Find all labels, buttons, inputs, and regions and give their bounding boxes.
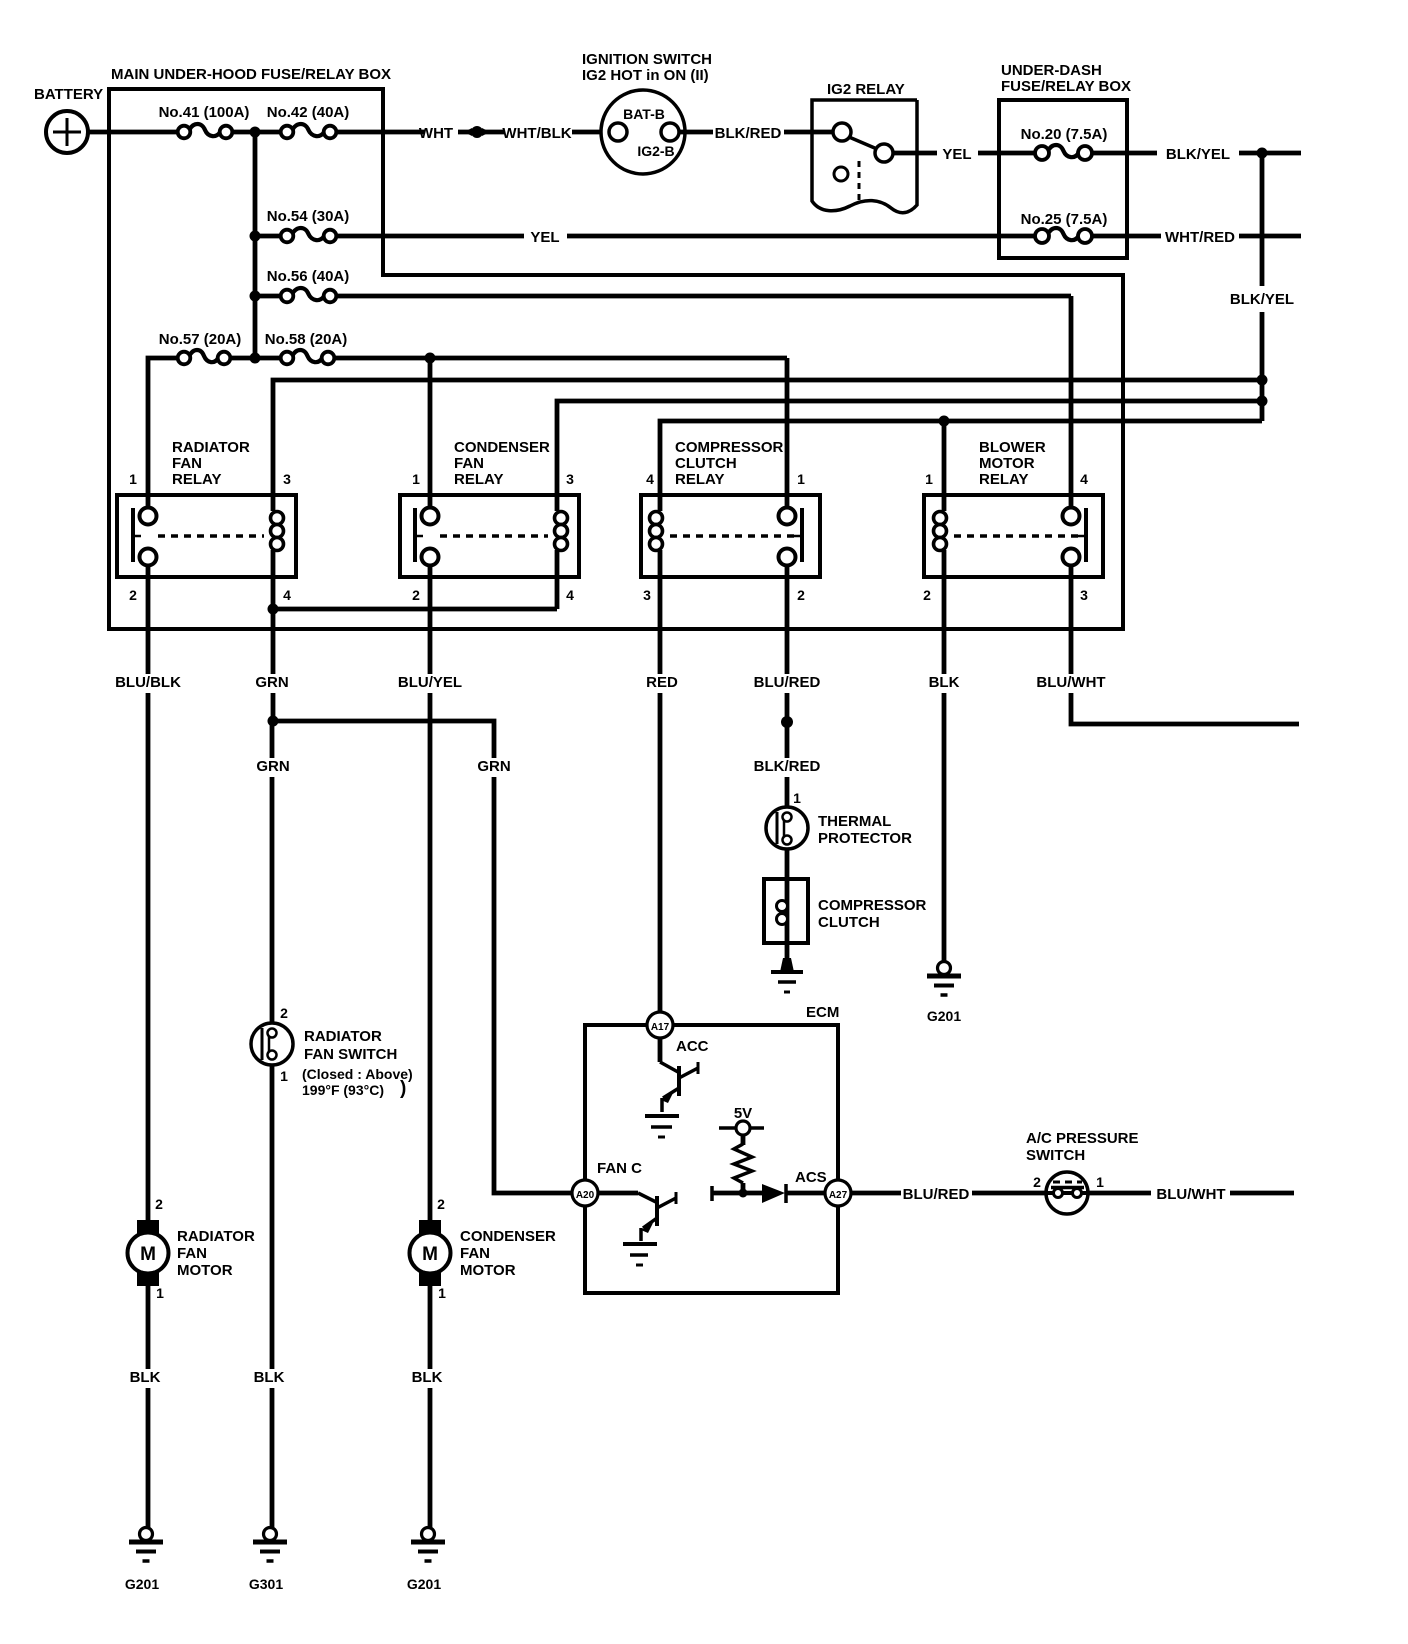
svg-text:FAN: FAN — [172, 455, 202, 472]
wire ignition to BLK/RED — [679, 130, 713, 135]
svg-text:RED: RED — [646, 674, 678, 691]
ground ACC transistor emitter — [645, 1114, 679, 1118]
svg-text:RADIATOR: RADIATOR — [304, 1028, 382, 1045]
node battery feed junction — [250, 127, 261, 138]
wire BLU/RED to pressure switch — [972, 1191, 1046, 1196]
wire compressor coil pin 3 down RED — [658, 577, 663, 1012]
svg-text:MAIN UNDER-HOOD FUSE/RELAY BOX: MAIN UNDER-HOOD FUSE/RELAY BOX — [111, 66, 391, 83]
svg-text:BATTERY: BATTERY — [34, 86, 103, 103]
wire fan switch to ground — [270, 1065, 275, 1528]
svg-text:BLOWER: BLOWER — [979, 439, 1046, 456]
wire fuse20 output — [1092, 151, 1157, 156]
wire BLU/WHT right — [1230, 1191, 1294, 1196]
svg-text:IG2-B: IG2-B — [637, 143, 674, 159]
svg-text:BLK/YEL: BLK/YEL — [1230, 291, 1294, 308]
svg-text:ECM: ECM — [806, 1004, 839, 1021]
svg-text:WHT/BLK: WHT/BLK — [502, 125, 571, 142]
svg-text:YEL: YEL — [942, 146, 971, 163]
svg-text:CONDENSER: CONDENSER — [460, 1228, 556, 1245]
svg-text:2: 2 — [280, 1005, 288, 1021]
relay RY1 radiator fan relay — [117, 495, 296, 577]
thermal protector TP1 — [766, 807, 808, 849]
wire compressor relay pin 2 down BLU/RED — [785, 564, 790, 808]
svg-text:1: 1 — [793, 790, 801, 806]
wire BLK/RED to IG2 relay — [784, 130, 834, 135]
wire WHT/BLK to ignition switch — [572, 130, 610, 135]
svg-text:G201: G201 — [927, 1008, 961, 1024]
svg-text:COMPRESSOR: COMPRESSOR — [818, 897, 927, 914]
svg-text:BLK/RED: BLK/RED — [754, 758, 821, 775]
wire label BLU/YEL — [396, 674, 465, 693]
svg-text:RELAY: RELAY — [454, 471, 503, 488]
IG2 relay input pin — [833, 123, 851, 141]
vertical bus from fuse 41/42 junction — [253, 132, 258, 358]
svg-text:PROTECTOR: PROTECTOR — [818, 830, 912, 847]
svg-text:BLU/RED: BLU/RED — [903, 1186, 970, 1203]
svg-text:UNDER-DASH: UNDER-DASH — [1001, 62, 1102, 79]
ECM box outline — [585, 1025, 838, 1293]
A/C pressure switch PS1 — [1046, 1172, 1088, 1214]
wire blower relay pin 1 coil feed — [942, 421, 947, 495]
svg-text:BAT-B: BAT-B — [623, 106, 665, 122]
wire GRN down from junction — [271, 609, 276, 721]
wire label BLK — [928, 674, 961, 693]
svg-text:BLU/RED: BLU/RED — [754, 674, 821, 691]
svg-text:1: 1 — [797, 471, 805, 487]
svg-text:No.54 (30A): No.54 (30A) — [267, 208, 350, 225]
wire coil junction link — [273, 607, 557, 612]
svg-text:BLK: BLK — [929, 674, 960, 691]
ACS sense line start tick — [710, 1186, 714, 1201]
fuse No.41 (100A) — [189, 124, 220, 136]
svg-text:BLU/WHT: BLU/WHT — [1036, 674, 1105, 691]
wire fuse56 output to blower relay pin 4 — [335, 294, 1071, 299]
svg-text:No.58 (20A): No.58 (20A) — [265, 331, 348, 348]
node bus-fuse54 junction — [250, 231, 261, 242]
wire fuse42 output WHT — [335, 130, 425, 135]
svg-text:No.57 (20A): No.57 (20A) — [159, 331, 242, 348]
svg-text:RELAY: RELAY — [675, 471, 724, 488]
svg-text:A17: A17 — [651, 1022, 670, 1033]
svg-text:BLU/YEL: BLU/YEL — [398, 674, 462, 691]
svg-text:3: 3 — [643, 587, 651, 603]
svg-text:No.56 (40A): No.56 (40A) — [267, 268, 350, 285]
svg-text:G301: G301 — [249, 1576, 283, 1592]
wire radiator motor to ground BLK — [146, 1286, 151, 1528]
wire fuse57 feed corner to radiator relay pin 1 — [148, 358, 180, 509]
IG2 relay K1 body with torn bottom edge — [812, 100, 917, 213]
pull-up resistor R1 — [734, 1144, 752, 1183]
wire condenser relay pin 2 down — [428, 564, 433, 1221]
wire IG2 relay output YEL — [893, 151, 937, 156]
svg-text:FAN: FAN — [460, 1245, 490, 1262]
wire label GRN right — [478, 758, 511, 777]
wire fuse54 output YEL — [335, 234, 524, 239]
wire compressor clutch to ground — [785, 943, 790, 961]
radiator fan motor M1 — [137, 1220, 159, 1234]
fuse No.25 (7.5A) — [1048, 228, 1079, 240]
wire fuse41 to junction — [231, 130, 282, 135]
svg-text:MOTOR: MOTOR — [979, 455, 1035, 472]
svg-text:2: 2 — [155, 1196, 163, 1212]
wire BLK/YEL vertical lower — [1260, 312, 1265, 421]
svg-text:RELAY: RELAY — [979, 471, 1028, 488]
ground G201 radiator motor — [140, 1528, 153, 1541]
svg-text:2: 2 — [129, 587, 137, 603]
svg-text:1: 1 — [1096, 1174, 1104, 1190]
wire blower coil pin 2 down BLK — [942, 577, 947, 961]
svg-text:THERMAL: THERMAL — [818, 813, 891, 830]
svg-text:WHT: WHT — [419, 125, 453, 142]
svg-text:1: 1 — [156, 1285, 164, 1301]
IG2 relay output pin — [875, 144, 893, 162]
svg-text:A20: A20 — [576, 1190, 595, 1201]
node bus-fuse57/58 junction — [250, 353, 261, 364]
svg-text:CONDENSER: CONDENSER — [454, 439, 550, 456]
svg-text:CLUTCH: CLUTCH — [818, 914, 880, 931]
wire to condenser relay pin 1 — [428, 358, 433, 509]
diode D1 — [762, 1184, 785, 1203]
compressor clutch L1 coil box — [764, 879, 808, 943]
svg-text:YEL: YEL — [530, 229, 559, 246]
svg-text:GRN: GRN — [255, 674, 288, 691]
node BLK/YEL to condenser coil line — [1257, 396, 1268, 407]
fuse No.42 (40A) — [292, 124, 324, 136]
coil feed line y421 compressor relay pin 4 — [660, 421, 1262, 495]
svg-text:3: 3 — [283, 471, 291, 487]
svg-text:M: M — [422, 1244, 438, 1265]
ignition switch pin BAT-B — [609, 123, 627, 141]
svg-text:2: 2 — [437, 1196, 445, 1212]
svg-text:2: 2 — [1033, 1174, 1041, 1190]
svg-text:BLK/YEL: BLK/YEL — [1166, 146, 1230, 163]
svg-text:4: 4 — [566, 587, 574, 603]
wire battery to fuse box — [88, 130, 180, 135]
ground FAN C transistor emitter — [623, 1242, 657, 1246]
wire WHT to connector — [458, 130, 504, 135]
wire YEL to under-dash box — [978, 151, 1036, 156]
radiator fan switch SW2 — [251, 1023, 293, 1065]
svg-text:): ) — [400, 1078, 406, 1099]
relay RY3 compressor clutch relay — [641, 495, 820, 577]
wire label BLU/WHT — [1036, 674, 1105, 693]
wire fuse58 output — [333, 356, 787, 361]
fuse No.58 (20A) — [292, 350, 322, 362]
svg-text:BLU/BLK: BLU/BLK — [115, 674, 181, 691]
condenser fan motor M2 — [419, 1220, 441, 1234]
svg-text:1: 1 — [925, 471, 933, 487]
wire BLK/YEL to right — [1239, 151, 1301, 156]
wire resistor to ACS line — [741, 1183, 746, 1193]
node BLK/YEL to radiator coil line — [1257, 375, 1268, 386]
svg-text:MOTOR: MOTOR — [460, 1262, 516, 1279]
svg-text:FAN SWITCH: FAN SWITCH — [304, 1046, 397, 1063]
svg-text:BLK/RED: BLK/RED — [715, 125, 782, 142]
wire radiator relay pin 2 down — [146, 564, 151, 1221]
wire fuse57-bus — [229, 356, 282, 361]
svg-text:199°F (93°C): 199°F (93°C) — [302, 1082, 384, 1098]
wire thermal protector to compressor clutch — [785, 849, 790, 879]
svg-text:3: 3 — [566, 471, 574, 487]
wire A27 to BLU/RED — [851, 1191, 901, 1196]
ECM pin A20 — [572, 1180, 598, 1206]
wire label BLK radiator — [128, 1369, 161, 1388]
svg-text:IGNITION SWITCH: IGNITION SWITCH — [582, 51, 712, 68]
wire radiator coil pin 4 down — [271, 577, 276, 609]
wire label BLK condenser — [410, 1369, 443, 1388]
ground compressor clutch — [780, 958, 794, 972]
ECM pin A17 — [647, 1012, 673, 1038]
node bus-fuse56 junction — [250, 291, 261, 302]
node fuse58 to condenser relay pin 1 — [425, 353, 436, 364]
fuse No.56 (40A) — [292, 288, 324, 300]
wire condenser motor to ground BLK — [428, 1286, 433, 1528]
fuse No.57 (20A) — [189, 350, 218, 362]
fuse No.20 (7.5A) — [1048, 145, 1079, 157]
inline connector on WHT wire — [471, 126, 483, 138]
ignition switch pin IG2-B — [661, 123, 679, 141]
wire 5V to resistor — [741, 1135, 746, 1145]
wire fuse25 output — [1092, 234, 1161, 239]
ground G201 condenser motor — [422, 1528, 435, 1541]
wire label RED — [646, 674, 679, 693]
svg-text:M: M — [140, 1244, 156, 1265]
svg-text:RADIATOR: RADIATOR — [172, 439, 250, 456]
relay RY4 blower motor relay — [924, 495, 1103, 577]
wire label GRN left — [256, 758, 289, 777]
main under-hood fuse/relay box outline — [109, 89, 1123, 629]
under-dash fuse/relay box outline — [999, 100, 1127, 258]
svg-text:SWITCH: SWITCH — [1026, 1147, 1085, 1164]
svg-text:2: 2 — [923, 587, 931, 603]
FAN C driver transistor Q2 — [598, 1191, 638, 1196]
IG2 relay actuator dashed line — [858, 161, 861, 200]
svg-text:ACS: ACS — [795, 1169, 827, 1186]
svg-text:No.41 (100A): No.41 (100A) — [159, 104, 250, 121]
svg-text:1: 1 — [438, 1285, 446, 1301]
wire pressure switch to BLU/WHT — [1088, 1191, 1151, 1196]
wire bus to fuse54 — [255, 234, 282, 239]
node GRN branch junction — [268, 716, 279, 727]
node BLK/YEL branch junction — [1257, 148, 1268, 159]
relay RY2 condenser fan relay — [400, 495, 579, 577]
svg-text:4: 4 — [1080, 471, 1088, 487]
svg-text:G201: G201 — [125, 1576, 159, 1592]
wire label BLU/RED — [752, 674, 821, 693]
ECM pin A27 — [825, 1180, 851, 1206]
wire label BLK/RED — [752, 758, 821, 777]
svg-text:FAN: FAN — [177, 1245, 207, 1262]
svg-text:FUSE/RELAY BOX: FUSE/RELAY BOX — [1001, 78, 1131, 95]
ignition switch SW1 body — [601, 90, 685, 174]
svg-text:G201: G201 — [407, 1576, 441, 1592]
wire GRN branch to right — [273, 721, 572, 1193]
svg-text:BLK: BLK — [412, 1369, 443, 1386]
coil feed line y401 condenser relay pin 3 — [557, 401, 1262, 495]
IG2 relay lower contact pin — [834, 167, 848, 181]
wire bus to fuse56 — [255, 294, 282, 299]
svg-text:2: 2 — [412, 587, 420, 603]
svg-text:IG2 RELAY: IG2 RELAY — [827, 81, 905, 98]
node radiator/condenser coil junction — [268, 604, 279, 615]
svg-text:1: 1 — [412, 471, 420, 487]
wire BLK/YEL vertical branch — [1260, 153, 1265, 286]
svg-text:BLK: BLK — [254, 1369, 285, 1386]
svg-text:CLUTCH: CLUTCH — [675, 455, 737, 472]
wire label BLK fan switch — [252, 1369, 285, 1388]
svg-text:IG2 HOT in ON (II): IG2 HOT in ON (II) — [582, 67, 709, 84]
ground G301 fan switch — [264, 1528, 277, 1541]
node blower coil feed junction — [939, 416, 950, 427]
svg-text:GRN: GRN — [256, 758, 289, 775]
wire condenser coil pin 4 down — [555, 577, 560, 609]
wire blower relay pin 3 down BLU/WHT — [1071, 564, 1299, 724]
wire GRN continues down to fan switch — [270, 721, 275, 1023]
svg-text:MOTOR: MOTOR — [177, 1262, 233, 1279]
svg-text:ACC: ACC — [676, 1038, 709, 1055]
svg-text:RELAY: RELAY — [172, 471, 221, 488]
svg-text:3: 3 — [1080, 587, 1088, 603]
svg-text:A27: A27 — [829, 1190, 848, 1201]
IG2 relay switch blade — [849, 137, 877, 149]
svg-text:WHT/RED: WHT/RED — [1165, 229, 1235, 246]
svg-text:4: 4 — [283, 587, 291, 603]
wire label BLU/BLK — [114, 674, 183, 693]
svg-text:GRN: GRN — [477, 758, 510, 775]
wire label GRN — [256, 674, 289, 693]
svg-text:A/C PRESSURE: A/C PRESSURE — [1026, 1130, 1139, 1147]
wire YEL to under-dash fuse 25 — [567, 234, 1036, 239]
svg-text:No.42 (40A): No.42 (40A) — [267, 104, 350, 121]
svg-text:BLK: BLK — [130, 1369, 161, 1386]
ACC driver transistor Q1 — [658, 1038, 663, 1062]
svg-text:1: 1 — [280, 1068, 288, 1084]
wire to compressor relay pin 1 — [785, 358, 790, 509]
fuse No.54 (30A) — [292, 228, 324, 240]
inline connector on compressor clutch wire — [781, 716, 793, 728]
svg-text:No.20 (7.5A): No.20 (7.5A) — [1021, 126, 1108, 143]
wire WHT/RED to right — [1239, 234, 1301, 239]
battery B1 positive terminal — [46, 111, 88, 153]
svg-text:FAN C: FAN C — [597, 1160, 642, 1177]
svg-text:4: 4 — [646, 471, 654, 487]
ground G201 blower relay — [938, 962, 951, 975]
5V supply node — [719, 1126, 764, 1130]
svg-text:No.25 (7.5A): No.25 (7.5A) — [1021, 211, 1108, 228]
svg-text:1: 1 — [129, 471, 137, 487]
svg-text:FAN: FAN — [454, 455, 484, 472]
wire ACS line — [712, 1191, 763, 1196]
svg-text:RADIATOR: RADIATOR — [177, 1228, 255, 1245]
coil feed line y380 radiator relay pin 3 — [273, 380, 1262, 495]
svg-text:2: 2 — [797, 587, 805, 603]
svg-text:BLU/WHT: BLU/WHT — [1156, 1186, 1225, 1203]
wire diode to A27 — [786, 1191, 825, 1196]
svg-text:(Closed : Above): (Closed : Above) — [302, 1066, 413, 1082]
svg-text:COMPRESSOR: COMPRESSOR — [675, 439, 784, 456]
